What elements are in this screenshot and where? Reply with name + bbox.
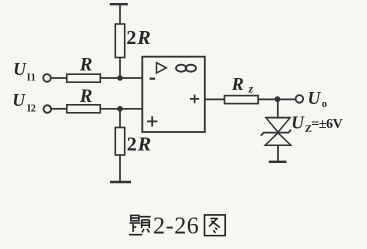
zener bottom triangle — [265, 133, 291, 145]
svg-text:R: R — [79, 86, 93, 107]
op-amp triangle symbol — [157, 63, 167, 73]
op-amp plus sign (input) — [147, 116, 157, 126]
wire — [119, 4, 121, 24]
svg-text:I1: I1 — [27, 73, 36, 84]
zener middle bar — [261, 130, 291, 136]
label U_I2 — [12, 90, 36, 114]
caption: hanzi 题 — [129, 215, 225, 236]
ground (bottom-left bar) — [110, 181, 131, 183]
svg-text:U: U — [291, 113, 305, 133]
wire — [100, 77, 142, 79]
wire — [119, 155, 121, 182]
op-amp U1 (rectangle) — [142, 57, 205, 132]
svg-text:U: U — [13, 59, 27, 79]
terminal U_o — [296, 95, 304, 103]
svg-text:U: U — [308, 88, 322, 108]
wire — [258, 98, 295, 100]
wire — [277, 145, 279, 162]
wire — [100, 108, 142, 110]
svg-text:R: R — [79, 55, 93, 76]
resistor R (upper) — [67, 74, 101, 82]
terminal U_I1 — [43, 74, 51, 82]
op-amp plus sign (output) — [190, 95, 199, 104]
svg-text:=±6V: =±6V — [311, 117, 342, 132]
wire — [277, 99, 279, 117]
power rail bar (top T terminal) — [110, 3, 128, 5]
zener diode pair: top bar — [266, 117, 291, 119]
svg-text:I2: I2 — [27, 104, 36, 115]
label U_o — [308, 88, 327, 110]
label Rz — [231, 74, 254, 96]
label U_Z = ±6V — [291, 113, 342, 136]
svg-text:2R: 2R — [126, 27, 150, 49]
resistor Rz — [225, 96, 259, 104]
node (inverting input junction) — [117, 75, 123, 81]
wire — [119, 58, 121, 79]
svg-text:U: U — [12, 90, 26, 110]
node (non-inverting input junction) — [117, 106, 123, 112]
op-amp minus sign — [150, 78, 156, 80]
svg-text:z: z — [248, 83, 254, 95]
resistor 2R (top) — [115, 24, 124, 58]
resistor 2R (bottom) — [115, 128, 124, 156]
svg-text:o: o — [322, 99, 327, 110]
wire (output) — [205, 98, 225, 100]
ground (below zener) — [269, 161, 287, 163]
wire — [51, 108, 67, 110]
label U_I1 — [13, 59, 36, 84]
svg-text:R: R — [231, 74, 244, 94]
zener top triangle — [266, 118, 290, 132]
op-amp infinity symbol — [176, 65, 186, 72]
wire — [51, 77, 67, 79]
wire — [119, 109, 121, 128]
svg-text:2-26: 2-26 — [153, 214, 199, 240]
caption: hanzi 图 — [205, 215, 226, 236]
terminal U_I2 — [44, 105, 52, 113]
node (output junction) — [275, 96, 281, 102]
svg-text:2R: 2R — [127, 133, 151, 155]
resistor R (lower) — [67, 105, 101, 113]
